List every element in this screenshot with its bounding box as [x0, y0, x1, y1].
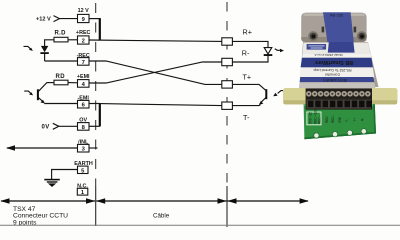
label band dark blue (BB SmartWorx)	[301, 58, 373, 68]
svg-text:REC-: REC-	[331, 115, 335, 123]
label band blue (Current Loop)	[300, 77, 375, 82]
label band white top	[303, 43, 371, 54]
svg-text:2: 2	[82, 39, 85, 45]
terminal T-	[222, 102, 233, 109]
svg-text:0V: 0V	[42, 125, 50, 131]
DB9 hood shell	[301, 13, 366, 42]
svg-text:BB SmartWorx: BB SmartWorx	[315, 59, 353, 65]
wire resistor RD to pin4	[68, 82, 78, 84]
DB9 blue connector body	[323, 12, 354, 42]
label band gray lower	[299, 82, 376, 88]
right boundary solid lower segment	[226, 186, 228, 227]
terminal front openings	[307, 100, 371, 109]
beige wing right	[371, 88, 398, 104]
phototransistor Q2	[265, 89, 267, 99]
terminal block	[306, 88, 372, 109]
photodiode (receive LED)	[41, 46, 48, 52]
svg-text:RS-232: RS-232	[330, 13, 343, 17]
svg-text:T+: T+	[353, 118, 357, 122]
wire junction vertical 12V to +REC line	[99, 18, 101, 40]
wire R+ to LED	[232, 41, 268, 47]
svg-text:Converter: Converter	[324, 72, 340, 76]
svg-text:0V0 +12: 0V0 +12	[309, 112, 313, 124]
light arrow into photodiode	[24, 46, 31, 49]
dimension line right segment (converter)	[228, 200, 309, 202]
small blue tag	[307, 44, 327, 50]
wire pin8 to junction	[89, 125, 100, 127]
left boundary dashed line (connector / cable)	[95, 3, 97, 186]
wire T+ to transistor	[232, 84, 265, 90]
wire -REC crossing to T+	[89, 61, 222, 84]
wire resistor RD to pin2	[68, 39, 78, 41]
dimension line middle segment (cable)	[96, 200, 226, 202]
terminal R-	[222, 58, 233, 65]
svg-text:R-: R-	[361, 118, 365, 121]
wire +EMI crossing to R-	[89, 62, 222, 83]
wire pin6 to junction	[89, 103, 100, 105]
label band white (converter text)	[299, 67, 374, 78]
bottom rule	[0, 224, 400, 226]
wire -EMI line to T-	[100, 104, 222, 106]
wire diode to pin 7	[45, 60, 78, 62]
right boundary dashed line (cable / converter)	[226, 2, 228, 186]
beige wing left	[283, 88, 309, 104]
svg-text:T-: T-	[345, 119, 349, 122]
ground (earth) symbol	[44, 179, 60, 181]
wire EARTH to ground	[52, 170, 78, 180]
connector chevron 0V	[53, 123, 59, 129]
svg-text:RD: RD	[56, 74, 66, 80]
svg-text:RS-232 To Current Loop: RS-232 To Current Loop	[314, 68, 352, 72]
dimension line left segment (connector)	[1, 200, 95, 202]
connector chevron +12V	[54, 16, 60, 22]
label band white 2	[302, 53, 371, 57]
svg-text:T-: T-	[243, 113, 250, 122]
jack screw left	[308, 31, 318, 41]
left boundary solid lower segment	[95, 186, 97, 226]
svg-text:Current Loop: Current Loop	[323, 77, 348, 82]
svg-text:R-: R-	[242, 48, 250, 57]
wire	[60, 18, 78, 20]
svg-text:R.D: R.D	[55, 31, 67, 37]
svg-text:REC-: REC-	[318, 116, 322, 124]
light arrow into phototransistor Q1	[24, 91, 31, 93]
LED D2 (emitting)	[264, 48, 272, 54]
svg-text:+12 V: +12 V	[36, 17, 51, 23]
light arrow out of LED	[275, 49, 281, 51]
svg-text:EMI: EMI	[338, 117, 342, 123]
green PCB	[304, 104, 376, 139]
svg-text:T+: T+	[243, 72, 252, 81]
phototransistor Q1	[37, 89, 39, 100]
svg-text:Câble: Câble	[153, 213, 170, 220]
terminal R+	[222, 38, 233, 45]
light arrow into transistor Q2	[278, 91, 285, 94]
hood slots	[322, 27, 325, 33]
svg-text:7: 7	[82, 60, 85, 66]
terminal T+	[222, 81, 233, 88]
wire emitter to pin 6	[44, 103, 77, 105]
PCB holes	[314, 129, 367, 139]
svg-text:Model 232CL2 rev A: Model 232CL2 rev A	[314, 53, 343, 57]
wire +REC line to R+	[89, 40, 222, 41]
wire junction vertical -EMI to 0V line	[99, 103, 101, 126]
wire resistor to transistor collector	[47, 82, 55, 84]
jack screw right	[357, 31, 367, 41]
body side rails (widening silhouette)	[300, 42, 379, 87]
blue center below hood	[328, 42, 355, 53]
wire LED to R-	[232, 56, 268, 62]
photo: converter device	[283, 12, 398, 139]
PCB silkscreen labels	[309, 108, 365, 124]
svg-text:R+: R+	[243, 27, 252, 36]
PCB silkscreen box	[307, 112, 321, 125]
svg-text:+REC: +REC	[76, 30, 91, 36]
svg-text:REC: REC	[325, 116, 329, 123]
wire resistor to diode	[45, 40, 54, 46]
wire /INL long arrow	[7, 147, 78, 149]
svg-text:12 V: 12 V	[78, 8, 89, 14]
wire pin3 stub	[89, 147, 98, 149]
wire emitter to T-	[232, 105, 259, 107]
wire pin9 to junction	[89, 18, 100, 20]
